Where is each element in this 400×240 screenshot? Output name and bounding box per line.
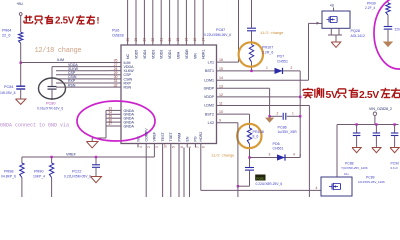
svg-text:VDD3: VDD3 — [151, 50, 155, 59]
svg-text:PR39: PR39 — [367, 2, 376, 6]
svg-text:11/2 change: 11/2 change — [211, 154, 235, 159]
svg-text:VDD5: VDD5 — [135, 50, 139, 59]
svg-text:RSN: RSN — [124, 86, 132, 90]
svg-text:2: 2 — [277, 112, 279, 116]
svg-text:4: 4 — [293, 153, 295, 157]
svg-text:VIN_OZ828_2: VIN_OZ828_2 — [369, 107, 392, 111]
svg-text:2: 2 — [147, 146, 151, 148]
svg-text:PC86: PC86 — [278, 125, 287, 129]
svg-text:PC22: PC22 — [72, 169, 82, 173]
svg-text:16: 16 — [219, 58, 223, 62]
svg-text:0.22U/X8M-26V_6: 0.22U/X8M-26V_6 — [204, 33, 231, 37]
svg-text:32: 32 — [114, 83, 118, 87]
svg-text:COMPV: COMPV — [145, 128, 149, 142]
svg-text:LDM1: LDM1 — [204, 78, 214, 82]
svg-text:UBA: UBA — [177, 51, 181, 59]
svg-text:22: 22 — [151, 38, 155, 42]
svg-text:PR64: PR64 — [2, 29, 12, 33]
svg-text:4: 4 — [139, 146, 143, 148]
svg-text:PD6: PD6 — [273, 142, 280, 146]
svg-text:EN: EN — [186, 136, 190, 141]
svg-text:PR108: PR108 — [253, 130, 264, 134]
svg-text:37: 37 — [163, 144, 167, 148]
svg-text:TEST: TEST — [161, 132, 165, 142]
svg-text:PR107: PR107 — [262, 46, 273, 50]
svg-text:GNDP: GNDP — [204, 87, 215, 91]
svg-text:VDD4: VDD4 — [143, 50, 147, 59]
svg-text:8: 8 — [180, 146, 184, 148]
svg-text:1u/35V_X5R: 1u/35V_X5R — [278, 130, 298, 134]
svg-text:20: 20 — [168, 38, 172, 42]
svg-text:10U/X6S-25V_1206: 10U/X6S-25V_1206 — [358, 180, 385, 184]
svg-text:PQ28: PQ28 — [351, 29, 360, 33]
svg-text:LX2: LX2 — [208, 121, 214, 125]
svg-text:10u: 10u — [344, 172, 349, 176]
svg-text:17: 17 — [201, 38, 205, 42]
svg-text:GNDA: GNDA — [124, 124, 135, 128]
svg-text:22_6: 22_6 — [2, 33, 10, 37]
svg-text:CH551: CH551 — [277, 60, 288, 64]
svg-text:HDR1: HDR1 — [202, 49, 206, 59]
svg-text:16: 16 — [185, 38, 189, 42]
svg-text:LDM2: LDM2 — [204, 104, 214, 108]
svg-text:PC90: PC90 — [391, 161, 400, 165]
svg-text:BST1: BST1 — [205, 69, 214, 73]
svg-text:PC85: PC85 — [257, 176, 264, 180]
svg-text:26: 26 — [134, 38, 138, 42]
svg-text:VIN: VIN — [193, 53, 197, 59]
svg-text:5: 5 — [172, 146, 176, 148]
svg-text:12/18 change: 12/18 change — [35, 47, 82, 55]
svg-text:0.01u/X7R-16V_6: 0.01u/X7R-16V_6 — [37, 107, 63, 111]
svg-text:PWM: PWM — [177, 133, 181, 142]
svg-text:VREF: VREF — [66, 153, 77, 157]
svg-text:21: 21 — [159, 38, 163, 42]
svg-text:VDDP: VDDP — [204, 95, 215, 99]
svg-text:PR90: PR90 — [34, 169, 44, 173]
svg-text:1W-05V_8: 1W-05V_8 — [0, 91, 16, 95]
svg-text:2.5V: 2.5V — [55, 16, 75, 27]
svg-text:11: 11 — [219, 102, 223, 106]
svg-text:PR98: PR98 — [4, 169, 14, 173]
svg-text:PC88: PC88 — [345, 161, 354, 165]
svg-text:15: 15 — [176, 38, 180, 42]
svg-text:BST2: BST2 — [205, 112, 214, 116]
svg-text:2.2R_6: 2.2R_6 — [262, 51, 273, 55]
svg-text:NC: NC — [126, 53, 130, 59]
svg-text:13: 13 — [219, 84, 223, 88]
svg-text:3: 3 — [155, 146, 159, 148]
svg-text:9: 9 — [219, 119, 221, 123]
svg-text:LX1: LX1 — [208, 60, 214, 64]
svg-text:1: 1 — [266, 66, 268, 70]
svg-text:PD7: PD7 — [277, 55, 284, 59]
svg-text:14: 14 — [219, 76, 223, 80]
svg-text:37: 37 — [108, 122, 112, 126]
svg-text:0.22U/X5M-05V_6: 0.22U/X5M-05V_6 — [64, 174, 91, 178]
svg-text:+BU: +BU — [17, 2, 24, 6]
svg-text:CH561: CH561 — [273, 147, 284, 151]
svg-text:RSN: RSN — [68, 83, 76, 87]
svg-text:PC89: PC89 — [366, 175, 375, 179]
svg-text:04.8KP_6: 04.8KP_6 — [1, 174, 16, 178]
svg-text:GNDA connect to GND via: GNDA connect to GND via — [0, 122, 69, 128]
svg-text:PC84: PC84 — [4, 85, 14, 89]
svg-text:0.1U/: 0.1U/ — [391, 166, 398, 170]
svg-text:12: 12 — [219, 93, 223, 97]
svg-text:PU6: PU6 — [112, 29, 119, 33]
svg-text:18: 18 — [193, 38, 197, 42]
svg-text:OZ828: OZ828 — [112, 34, 124, 38]
svg-text:PC80: PC80 — [46, 102, 56, 106]
svg-text:25: 25 — [126, 38, 130, 42]
svg-text:VDDB: VDDB — [185, 49, 189, 59]
svg-text:2.5V: 2.5V — [359, 90, 379, 101]
svg-text:AOL1412: AOL1412 — [351, 34, 365, 38]
svg-text:Y(U/X5R-25V_1206: Y(U/X5R-25V_1206 — [341, 166, 368, 170]
svg-text:11/2 change: 11/2 change — [260, 31, 284, 36]
svg-text:PG: PG — [194, 136, 198, 141]
svg-text:7: 7 — [196, 146, 200, 148]
svg-text:15: 15 — [219, 67, 223, 71]
svg-text:8_6: 8_6 — [253, 135, 259, 139]
svg-text:+B: +B — [330, 4, 335, 8]
svg-text:5V: 5V — [326, 90, 338, 101]
svg-text:10KP_4: 10KP_4 — [33, 174, 45, 178]
svg-text:23: 23 — [143, 38, 147, 42]
svg-text:220: 220 — [395, 28, 400, 32]
svg-text:1: 1 — [292, 112, 294, 116]
svg-text:4: 4 — [316, 186, 318, 190]
svg-text:ILIM: ILIM — [57, 58, 64, 62]
svg-text:TSET: TSET — [169, 132, 173, 142]
svg-text:!: ! — [97, 15, 100, 25]
svg-text:PC87: PC87 — [216, 28, 225, 32]
svg-text:10: 10 — [219, 110, 223, 114]
svg-text:VREF: VREF — [153, 131, 157, 141]
svg-text:2.2F_4: 2.2F_4 — [365, 6, 375, 10]
svg-text:0.22U/X8R-25V_6: 0.22U/X8R-25V_6 — [256, 182, 283, 186]
svg-text:HDR2: HDR2 — [199, 132, 203, 142]
svg-text:NC: NC — [136, 136, 140, 142]
svg-text:6: 6 — [202, 146, 206, 148]
svg-text:VDD2: VDD2 — [160, 50, 164, 59]
svg-text:2: 2 — [291, 66, 293, 70]
svg-text:VDD1: VDD1 — [168, 50, 172, 59]
svg-text:3: 3 — [269, 153, 271, 157]
